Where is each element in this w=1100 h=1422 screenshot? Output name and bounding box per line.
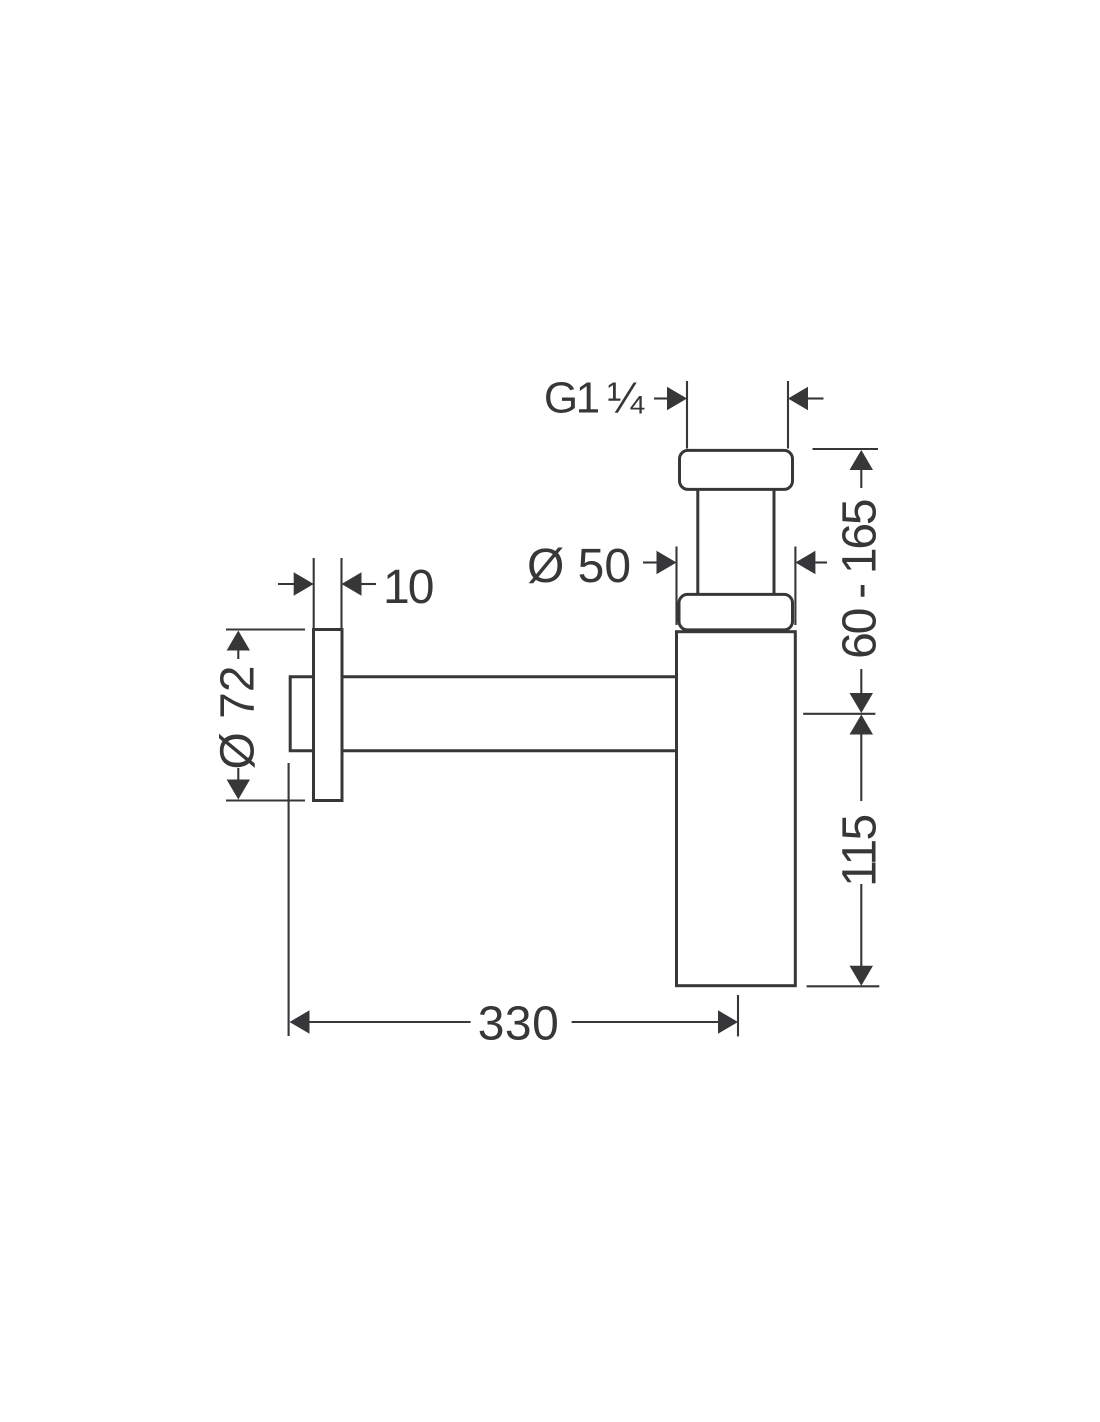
node: dim330 left arrow: [290, 1010, 471, 1033]
wire: dim115 bottom extension line: [807, 985, 880, 987]
node: dim10 left arrow: [278, 572, 314, 595]
node: dia50 left arrow: [643, 551, 677, 574]
wire: G1 1/4 left witness line: [686, 381, 688, 449]
wire: dia72 bottom extension line: [226, 799, 305, 801]
wire: horizontal pipe main run: [342, 677, 677, 751]
node: dimension 330 label: [478, 998, 560, 1051]
node: dia72 down arrow: [227, 768, 250, 800]
wire: dim330 left witness line: [288, 763, 290, 1036]
svg-text:Ø 50: Ø 50: [527, 540, 631, 593]
node: lower union nut: [679, 594, 793, 630]
wire: dim60-165 top extension line: [813, 448, 879, 450]
node: dimension 10 label: [383, 561, 433, 614]
wire: dia50 left witness line: [675, 547, 677, 626]
wire: threaded column between nuts: [698, 490, 774, 595]
node G1 1/4 label: [544, 374, 645, 423]
wire: dia72 top extension line: [226, 628, 305, 630]
node: dim115 up arrow: [850, 715, 874, 802]
wire: dia50 right witness line: [794, 547, 796, 626]
wire: dim10 right witness line: [340, 558, 342, 628]
svg-text:G1 ¼: G1 ¼: [544, 374, 645, 423]
node: G1 1/4 right arrow: [788, 387, 824, 410]
node: diameter 50 label: [527, 540, 631, 593]
node: diameter 72 label (rotated): [212, 665, 265, 769]
node: dimension 60-165 label (rotated): [834, 500, 887, 659]
node: dimension 115 label (rotated): [834, 815, 887, 886]
node: dim60-165 down arrow: [850, 669, 874, 713]
node: siphon body cup: [677, 632, 796, 986]
node: dia50 right arrow: [795, 551, 827, 574]
svg-text:60 - 165: 60 - 165: [834, 500, 887, 659]
svg-text:115: 115: [834, 815, 887, 886]
svg-text:10: 10: [383, 561, 433, 614]
node: dim115 down arrow: [850, 884, 874, 986]
wire: dim10 left witness line: [313, 558, 315, 628]
wire: dim330 right witness line: [737, 995, 739, 1036]
wire: G1 1/4 right witness line: [787, 381, 789, 449]
node: G1 1/4 left arrow: [654, 387, 687, 410]
node: top union nut: [680, 450, 793, 489]
node: dim10 right arrow: [342, 572, 377, 595]
svg-text:Ø 72: Ø 72: [212, 665, 265, 769]
svg-text:330: 330: [478, 998, 560, 1051]
node: dim60-165 up arrow: [850, 450, 874, 488]
wire: horizontal pipe left stub with end cap: [290, 677, 313, 751]
node: dia72 up arrow: [227, 631, 250, 660]
node: dim330 right arrow: [572, 1010, 738, 1033]
node: wall flange plate: [314, 630, 343, 801]
wire: mid extension line at pipe axis: [803, 713, 875, 715]
